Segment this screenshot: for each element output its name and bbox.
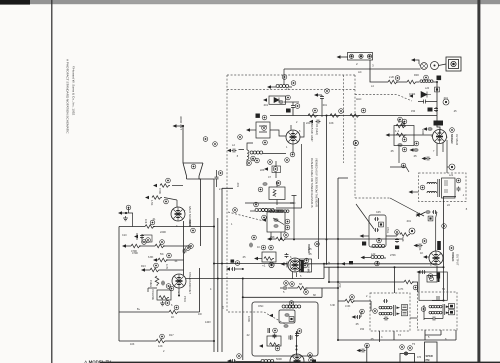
svg-text:500K: 500K	[276, 357, 282, 361]
resistor R11	[131, 244, 141, 248]
lamp I2	[431, 62, 439, 70]
svg-text:L22: L22	[371, 252, 376, 256]
svg-text:470K: 470K	[158, 188, 162, 194]
node D	[213, 142, 218, 147]
tuner box left edge	[226, 75, 228, 312]
tuner box inner divider	[227, 89, 355, 91]
lamp I1	[421, 63, 428, 70]
svg-text:L4: L4	[371, 85, 374, 88]
capacitor C12	[161, 281, 165, 286]
row y260	[157, 259, 184, 261]
node C	[203, 137, 208, 142]
svg-text:220: 220	[306, 121, 311, 125]
svg-text:4.5 MC: 4.5 MC	[307, 264, 311, 273]
capacitor C49	[414, 244, 418, 247]
capacitor C52	[273, 334, 277, 339]
svg-text:2: 2	[366, 295, 368, 298]
side note text (rotated)	[66, 59, 76, 134]
svg-text:1K: 1K	[420, 251, 423, 255]
cap to bus	[226, 267, 230, 270]
tube V2 6AU6	[433, 130, 447, 144]
svg-text:3: 3	[381, 336, 383, 339]
svg-text:△ MODEL TV: △ MODEL TV	[83, 359, 111, 363]
svg-text:7: 7	[303, 358, 305, 361]
capacitor C41	[434, 107, 438, 112]
wire mixer grid y135	[389, 134, 433, 136]
capacitor C19	[249, 243, 253, 248]
svg-text:22: 22	[447, 203, 450, 207]
resistor R13	[158, 258, 168, 262]
wire y117 bus	[270, 109, 437, 116]
svg-text:150: 150	[411, 110, 416, 113]
svg-text:2: 2	[178, 291, 180, 294]
svg-text:1: 1	[286, 146, 288, 149]
bus arrow on y270	[341, 262, 345, 265]
resistor R41	[404, 280, 414, 284]
twin lead left	[187, 176, 201, 246]
T3 bottom capacitor	[384, 317, 389, 321]
feed resistor R42	[345, 299, 355, 303]
step x324 low	[323, 267, 325, 278]
T3 capacitor top	[383, 299, 388, 303]
svg-text:.05: .05	[355, 322, 359, 326]
svg-text:R30: R30	[414, 73, 419, 77]
antenna arrow	[173, 124, 177, 127]
coil L2	[247, 150, 249, 160]
wire gridbox to V1	[270, 130, 286, 136]
svg-text:12K: 12K	[158, 344, 163, 348]
trap feed arrow	[386, 133, 390, 136]
node E	[126, 205, 131, 210]
svg-text:1W: 1W	[198, 313, 202, 316]
audio output enclosure	[419, 272, 447, 300]
svg-text:2.2K: 2.2K	[389, 76, 394, 79]
capacitor C10	[140, 234, 144, 239]
svg-text:1K: 1K	[171, 315, 174, 319]
T4 bottom capacitor	[432, 317, 437, 321]
capacitor	[404, 351, 408, 356]
AF grid box	[267, 336, 281, 346]
svg-text:OUTPUT: OUTPUT	[456, 254, 460, 266]
svg-text:10K: 10K	[329, 121, 334, 125]
svg-text:5: 5	[446, 136, 448, 139]
T3 down leads	[338, 330, 456, 342]
svg-text:L21: L21	[449, 174, 454, 177]
svg-text:R13: R13	[141, 265, 146, 268]
capacitor C6	[215, 176, 219, 181]
bus y263	[214, 263, 438, 265]
below tube	[293, 272, 297, 279]
arrow on dashed diag	[269, 314, 273, 317]
test point dot on tuner edge	[353, 140, 358, 145]
top border bar dark segment	[0, 0, 30, 5]
svg-text:7: 7	[184, 210, 186, 213]
wire L2 top	[247, 143, 253, 150]
svg-text:C10: C10	[122, 234, 127, 237]
coil L6	[270, 210, 283, 213]
speaker box	[425, 342, 438, 363]
tuner bottom coil L5	[255, 208, 268, 211]
tuner box right edge	[354, 75, 356, 198]
bold label	[437, 241, 441, 250]
svg-text:270: 270	[338, 283, 342, 288]
slug box	[442, 178, 456, 198]
svg-text:XTAL: XTAL	[386, 227, 390, 234]
T2 leads down	[271, 232, 281, 239]
resistor R8	[160, 184, 170, 188]
capacitor C50	[285, 313, 290, 317]
svg-text:10K: 10K	[401, 237, 405, 242]
resistor R33	[397, 133, 407, 137]
wire L5 leads	[250, 210, 255, 212]
boxdot	[428, 216, 433, 221]
bus y238	[271, 238, 403, 240]
bus y278 left	[186, 278, 324, 280]
svg-text:1: 1	[231, 223, 233, 226]
svg-text:6.8K: 6.8K	[148, 255, 154, 259]
svg-text:68: 68	[313, 294, 316, 297]
T4 trimmer boxes	[449, 304, 455, 309]
svg-text:6: 6	[171, 304, 173, 307]
cathode box	[300, 259, 312, 272]
resistor R16	[169, 310, 179, 314]
wire y296	[242, 279, 244, 361]
svg-text:220K: 220K	[160, 230, 166, 234]
tuner box top edge	[227, 74, 355, 76]
svg-text:.01: .01	[174, 259, 178, 263]
terminal strip TS1	[348, 53, 373, 61]
grid resistor box	[157, 290, 171, 300]
svg-text:.02: .02	[246, 334, 250, 337]
svg-text:T3: T3	[398, 334, 402, 337]
vertical x394 feed	[394, 267, 396, 293]
right of box	[395, 230, 400, 235]
capacitor C5	[232, 149, 237, 153]
coil L31	[261, 359, 274, 362]
svg-text:T5: T5	[412, 342, 416, 346]
agc cap	[360, 309, 365, 314]
tuner interconnect wires	[179, 122, 304, 296]
T4 core	[443, 304, 445, 315]
ref	[422, 239, 427, 244]
capacitor C43	[428, 127, 433, 131]
V3 top lead	[164, 198, 177, 208]
svg-text:2: 2	[356, 62, 358, 66]
svg-text:2: 2	[296, 121, 298, 124]
crystal box	[379, 222, 384, 227]
resistor R15 (vertical)	[155, 276, 159, 286]
svg-text:.01: .01	[418, 247, 422, 251]
wire y341	[119, 340, 214, 342]
svg-text:.001: .001	[263, 103, 269, 107]
vertical x338	[338, 178, 348, 340]
svg-text:2: 2	[163, 349, 165, 353]
detector box CR1	[435, 87, 440, 92]
tuner dashed stub right	[355, 197, 390, 199]
svg-text:1N64: 1N64	[409, 92, 416, 96]
ref	[443, 99, 449, 105]
svg-text:AC: AC	[358, 70, 362, 74]
caps inside	[274, 218, 279, 222]
svg-text:1MEG: 1MEG	[149, 280, 152, 287]
svg-text:C45: C45	[376, 211, 381, 214]
wire y246	[126, 245, 190, 247]
svg-text:100K: 100K	[247, 316, 251, 322]
svg-text:PIN3: PIN3	[183, 296, 187, 302]
svg-text:10K: 10K	[144, 219, 147, 224]
vertical x445	[432, 197, 456, 301]
svg-text:4.7K: 4.7K	[398, 287, 404, 291]
left margin rule	[51, 0, 52, 363]
interlock plug P1	[439, 57, 462, 71]
svg-text:5%: 5%	[160, 253, 164, 256]
T3-T4 link	[410, 317, 418, 319]
label box	[256, 114, 260, 118]
svg-text:.001: .001	[443, 96, 449, 100]
T4 cap top	[437, 296, 439, 300]
plug arrow	[411, 58, 415, 61]
vertical x377	[377, 261, 379, 264]
T4 ref	[421, 307, 426, 312]
refs pair	[400, 345, 405, 350]
svg-text:.25: .25	[327, 261, 331, 265]
label box	[437, 76, 442, 81]
tube pins	[437, 140, 447, 173]
dashed if line	[343, 75, 345, 163]
resistor R17	[156, 339, 166, 343]
resistor R3	[350, 114, 360, 118]
vertical x327	[326, 116, 328, 264]
resistor R9	[152, 196, 162, 200]
contrast box	[427, 276, 437, 283]
vertical x370 if feed	[370, 301, 372, 311]
node F	[252, 235, 257, 240]
capacitor C1	[279, 100, 284, 104]
grid box	[256, 122, 270, 138]
lead x218	[217, 218, 219, 352]
T3 coils	[379, 306, 392, 309]
coil L21a	[427, 179, 439, 197]
svg-text:140V: 140V	[205, 321, 211, 324]
capacitor C40	[422, 100, 427, 104]
svg-text:10K: 10K	[130, 343, 135, 346]
test point TP1	[449, 164, 455, 170]
capacitor C11	[183, 249, 187, 254]
svg-text:.5: .5	[236, 155, 239, 158]
capacitor C51	[284, 324, 289, 328]
tuner dashed stub bottom	[228, 312, 286, 325]
node B	[191, 164, 196, 169]
capacitor C48	[426, 210, 431, 214]
wire strip drop	[370, 60, 388, 82]
resistor R31	[407, 80, 417, 84]
svg-text:.05: .05	[390, 149, 394, 153]
svg-text:150: 150	[360, 328, 365, 331]
left bus vertical	[118, 227, 120, 342]
transformer T1 enclosure	[419, 173, 467, 202]
svg-text:47: 47	[268, 175, 271, 179]
diode CR2	[421, 92, 431, 98]
wire osc box leads	[276, 181, 278, 205]
svg-text:R17: R17	[169, 334, 174, 337]
svg-text:470: 470	[417, 356, 422, 359]
tube V6	[429, 251, 443, 265]
svg-text:L2: L2	[232, 143, 235, 147]
grid network box Z2	[369, 215, 386, 247]
osc pad box	[272, 166, 281, 173]
capacitor C3	[320, 95, 324, 100]
svg-text:.5: .5	[465, 207, 468, 211]
svg-text:22K: 22K	[260, 169, 265, 172]
wire C6 leads	[216, 170, 218, 187]
vertical x437 lower	[436, 266, 438, 276]
cluster right of trap	[414, 141, 419, 146]
capacitor C2	[291, 104, 295, 109]
resistor R12	[155, 244, 165, 248]
diag feed to T2	[273, 218, 284, 225]
svg-text:3: 3	[430, 264, 432, 267]
svg-text:.25: .25	[453, 110, 457, 113]
resistor R1	[308, 114, 318, 118]
coil L1	[276, 84, 289, 87]
audio box	[400, 354, 415, 363]
wire L3 to V1	[263, 144, 293, 154]
refs cluster	[255, 158, 260, 163]
bus y267	[324, 264, 444, 267]
resistor R30	[388, 80, 398, 84]
svg-text:V2 6AU6: V2 6AU6	[455, 134, 459, 146]
svg-text:300Ω ANT: 300Ω ANT	[179, 116, 183, 130]
T3 trimmer boxes	[402, 305, 408, 310]
svg-text::: :	[348, 308, 349, 311]
capacitor C44	[457, 187, 461, 192]
svg-text:A PHOTOFACT STANDARD NOTATION: A PHOTOFACT STANDARD NOTATION SCHEMATIC	[66, 59, 70, 134]
svg-text:68: 68	[299, 282, 302, 286]
input arrow	[281, 262, 285, 265]
bend to box	[245, 198, 319, 260]
svg-text:39K: 39K	[270, 235, 275, 239]
tube V1 6BC5	[286, 130, 300, 144]
svg-text:2.2: 2.2	[219, 188, 223, 191]
svg-text:.001: .001	[322, 104, 327, 107]
test ref on B+ vertical	[442, 224, 447, 229]
diode CR3	[269, 96, 286, 104]
svg-text:PM: PM	[426, 358, 430, 362]
lead x222	[222, 188, 233, 352]
tube V4 sound det	[172, 274, 186, 288]
svg-text:AGC: AGC	[356, 98, 362, 101]
svg-text:.1: .1	[462, 194, 465, 197]
svg-text:5: 5	[299, 130, 301, 133]
feed arrow	[360, 234, 364, 237]
tuner dashed stub mid	[228, 212, 262, 221]
svg-text:8: 8	[445, 338, 447, 341]
wire V4 cathode	[178, 288, 180, 296]
transformer T2 box	[267, 212, 285, 232]
svg-text:3.3K: 3.3K	[330, 304, 335, 307]
wire trap down	[390, 145, 409, 172]
capacitor C46	[374, 228, 379, 232]
ref	[409, 228, 415, 234]
caps left pair	[401, 122, 405, 127]
bus y282 right	[329, 267, 418, 292]
svg-text:3: 3	[372, 64, 374, 68]
svg-text:OSC: OSC	[290, 201, 296, 205]
svg-text:6BC5 RF AMP: 6BC5 RF AMP	[310, 122, 314, 142]
resistor R14	[150, 268, 160, 272]
coil L30	[282, 305, 295, 308]
svg-text:6T8 SOUND DET: 6T8 SOUND DET	[188, 272, 192, 294]
V1 plate drop	[276, 144, 302, 208]
capacitor C42	[398, 143, 403, 147]
capacitor C45	[374, 217, 379, 221]
resistor R32	[396, 124, 406, 128]
resistor R2	[330, 114, 340, 118]
T1 feed arrow	[409, 190, 413, 193]
T4 coils	[429, 305, 442, 308]
junction dots	[326, 238, 328, 240]
bottom border bar	[100, 362, 500, 363]
svg-text:VIEWED AS IF SEEN FROM THE REA: VIEWED AS IF SEEN FROM THE REAR	[315, 158, 319, 207]
svg-text:1.5K: 1.5K	[150, 200, 154, 206]
left bottom cap	[237, 354, 242, 359]
right border bar	[477, 0, 480, 363]
inner box	[279, 310, 295, 323]
svg-text:V1 (1&2): V1 (1&2)	[315, 124, 319, 135]
tube V5	[288, 258, 302, 272]
grid box left	[262, 252, 276, 262]
coil small	[268, 328, 270, 333]
coil L23	[371, 255, 384, 258]
svg-text:MIXER: MIXER	[450, 134, 454, 144]
node G	[233, 208, 238, 213]
osc box	[252, 302, 318, 356]
svg-text:©Howard W. Sams & Co., Inc. 19: ©Howard W. Sams & Co., Inc. 1952	[72, 66, 76, 115]
resistor R40	[400, 233, 410, 237]
svg-text:.001: .001	[236, 182, 240, 188]
resistor R20 on bus	[276, 237, 286, 241]
osc coil box	[269, 187, 285, 200]
twin lead right	[199, 176, 214, 352]
ground + ref	[160, 301, 165, 306]
svg-text:220K: 220K	[421, 129, 425, 135]
right side of osc box	[297, 329, 302, 334]
svg-text:L1: L1	[286, 87, 289, 91]
cathode cap	[417, 270, 421, 273]
capacitor C47	[395, 238, 399, 243]
svg-text:OSC: OSC	[258, 305, 264, 308]
svg-text:1.1: 1.1	[395, 129, 400, 133]
T4 down lead	[425, 330, 441, 340]
svg-text:470K: 470K	[132, 251, 138, 255]
T4 slug arrows	[446, 306, 450, 314]
svg-text:.05: .05	[308, 252, 312, 256]
svg-text:×1: ×1	[262, 264, 266, 268]
coil L22	[372, 244, 385, 247]
capacitor C20	[285, 253, 289, 258]
svg-text:4: 4	[210, 288, 212, 291]
trap box Z1	[394, 126, 414, 146]
boxdot	[289, 317, 294, 322]
svg-text:5: 5	[300, 275, 302, 278]
tube V7 (cut at bottom)	[290, 354, 304, 363]
wire strip feed	[341, 56, 349, 58]
svg-text:T4: T4	[442, 288, 446, 291]
coil L3	[250, 151, 263, 154]
svg-text:.05: .05	[370, 337, 374, 341]
wire y312	[119, 268, 200, 312]
bold labels right	[301, 260, 304, 272]
